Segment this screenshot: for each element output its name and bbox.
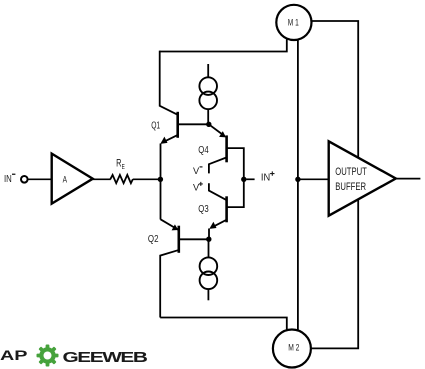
Q2 emitter with arrow <box>160 179 162 219</box>
node IN+ junction dot <box>241 177 246 182</box>
svg-text:Q4: Q4 <box>198 145 209 156</box>
current source I2 (bottom) <box>200 239 218 300</box>
Q1 collector <box>160 51 177 115</box>
transistor Q1 <box>160 51 209 180</box>
node Y1 junction dot <box>206 122 211 127</box>
wire M2 right to feedback column <box>311 196 358 348</box>
Q3 base bar <box>225 196 228 222</box>
svg-text:M 2: M 2 <box>288 343 299 353</box>
svg-text:M 1: M 1 <box>288 17 299 27</box>
wire node Z vertical (M1 to M2 through IN+ row) <box>297 40 299 331</box>
wire RE to node X <box>133 178 161 180</box>
svg-text:A: A <box>63 173 68 184</box>
wire bottom rail (Q2 collector to M2) <box>160 318 287 332</box>
Q1 base wire <box>179 123 209 125</box>
Q3 emitter with arrow <box>211 220 226 228</box>
op-amp output buffer <box>329 141 396 215</box>
svg-text:E: E <box>122 162 125 171</box>
label V- <box>193 166 203 177</box>
Q4 collector to V- <box>209 158 226 174</box>
current mirror M1 <box>276 5 311 40</box>
wire IN+ stub <box>246 178 254 180</box>
svg-text:V: V <box>193 166 200 177</box>
node IN+ label <box>261 171 275 183</box>
wire Z to output buffer <box>298 178 329 180</box>
logo Apogeeweb <box>0 345 147 367</box>
svg-text:IN: IN <box>261 173 270 184</box>
Q4 emitter with arrow <box>210 125 225 136</box>
Q2 base bar <box>178 226 181 253</box>
Q2 base wire <box>180 238 209 240</box>
svg-text:IN: IN <box>4 174 12 185</box>
node Z junction dot <box>295 177 300 182</box>
resistor RE <box>110 175 132 183</box>
svg-text:BUFFER: BUFFER <box>335 181 366 193</box>
Q1 emitter with arrow <box>162 135 177 142</box>
node IN- input label <box>4 174 15 185</box>
Q4 base bar <box>225 135 228 162</box>
node Y2 junction dot <box>206 237 211 242</box>
svg-text:GEEWEB: GEEWEB <box>63 350 148 366</box>
current mirror M2 <box>273 330 311 368</box>
Q4 base wire <box>228 148 244 179</box>
svg-text:AP: AP <box>0 348 28 363</box>
label V+ <box>193 182 203 194</box>
transistor Q4 <box>209 125 244 180</box>
wire M1 right to feedback column <box>312 21 359 160</box>
wire output <box>396 178 421 180</box>
svg-text:OUTPUT: OUTPUT <box>335 166 367 178</box>
transistor Q2 <box>160 179 209 317</box>
Q1 base bar <box>176 112 179 138</box>
wire top rail (Q1 collector to M1) <box>160 40 287 52</box>
Q3 collector to V+ <box>209 183 226 200</box>
op-amp A (buffer) <box>52 154 93 204</box>
label RE <box>116 158 125 172</box>
svg-text:Q1: Q1 <box>151 120 160 131</box>
Q3 base wire <box>228 179 244 207</box>
svg-text:Q3: Q3 <box>198 204 209 215</box>
current source I1 (top) <box>199 64 217 124</box>
transistor Q3 <box>209 179 244 239</box>
node X junction dot <box>158 177 163 182</box>
logo gear <box>37 345 59 367</box>
svg-text:Q2: Q2 <box>148 234 159 245</box>
Q2 collector <box>160 250 178 317</box>
terminal IN- <box>21 176 28 183</box>
wire terminal to buffer A <box>28 178 51 180</box>
wire A to RE <box>93 178 111 180</box>
